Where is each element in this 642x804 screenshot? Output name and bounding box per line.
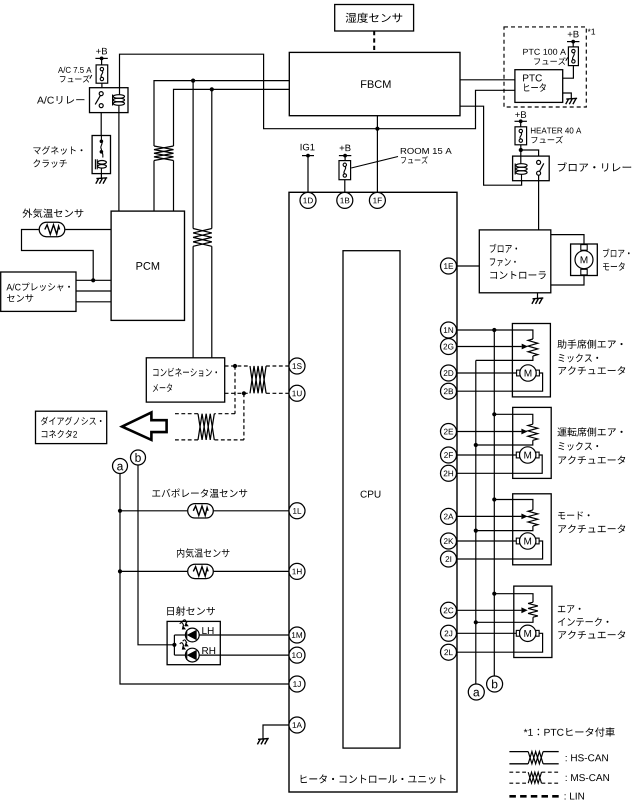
legend MS-CAN twist: [528, 772, 541, 783]
pin 1N: [441, 322, 457, 338]
sunlight sensor (box): [167, 621, 220, 664]
twisted pair MS-CAN (diagnosis branch): [198, 414, 214, 440]
junction dot bus-a actuator4: [474, 620, 478, 624]
pin 1U: [289, 385, 305, 401]
power +B (PTC): [567, 31, 579, 44]
pin 1J: [289, 676, 305, 692]
FBCM (box): [289, 52, 460, 115]
wire 2I to motor3: [457, 541, 543, 559]
node a (right): [468, 684, 484, 700]
wire 1E to controller: [457, 265, 480, 267]
photodiode LH: [180, 620, 200, 642]
label room temp sensor: [177, 548, 230, 557]
thermistor room temp: [188, 564, 214, 578]
ground (PTC heater): [566, 98, 577, 104]
pin 1A: [289, 717, 305, 733]
pin 2L: [441, 644, 457, 660]
wire fuse to relay coil: [520, 150, 522, 156]
junction dot bus-b actuator3: [492, 497, 496, 501]
label LH: [202, 627, 213, 634]
label outside air temp sensor: [22, 209, 83, 218]
fuse PTC 100A: [568, 47, 578, 66]
wire PTC fuse to heater: [563, 66, 574, 79]
junction dot CAN branch L: [191, 79, 195, 83]
junction dot bus-b top: [492, 328, 496, 332]
magnet clutch (box): [92, 136, 110, 174]
wire fuse to relay switch: [521, 150, 539, 156]
wire +B to room fuse: [344, 156, 346, 161]
wire pot3 bottom to bus-a: [476, 526, 533, 531]
combination meter (box): [146, 358, 224, 402]
pin 2G: [441, 339, 457, 355]
wire controller to motor top: [551, 235, 584, 245]
A/C pressure sensor (box): [1, 272, 76, 311]
relay A/C switch: [95, 92, 103, 108]
wire pot4 bottom to bus-a: [476, 617, 533, 622]
power +B (A/C fuse): [95, 48, 107, 60]
wire 2G wiper actuator1: [457, 344, 529, 350]
heater control unit (box): [289, 192, 457, 792]
label FBCM: [361, 80, 390, 88]
wire pot2 bottom to bus-a: [476, 440, 533, 445]
wire 2F to motor2: [457, 454, 517, 456]
wire CAN branch L to meter: [192, 81, 194, 358]
ground (blower controller): [532, 298, 543, 304]
wire motor bottom to controller: [551, 275, 584, 285]
wire LH to 1M: [199, 634, 289, 636]
pin 2A: [441, 508, 457, 524]
wire pressure sensor to PCM 1: [76, 279, 111, 281]
junction dot 1U line: [242, 391, 246, 395]
CPU (box): [343, 251, 400, 748]
wire FBCM to blower relay coil: [460, 106, 522, 185]
pin 2J: [441, 625, 457, 641]
wire b to sun sensor: [138, 465, 174, 645]
label HEATER 40A fuse: [531, 127, 581, 143]
wire HS-CAN H (PCM to FBCM): [174, 89, 290, 211]
actuator3 mode (box): [513, 494, 552, 565]
potentiometer actuator2: [528, 424, 538, 440]
motor actuator4: [516, 625, 539, 641]
junction dot a-room: [118, 569, 122, 573]
junction dot 1S line: [233, 364, 237, 368]
label RH: [202, 647, 215, 654]
wire MS-CAN branch U: [173, 393, 244, 440]
wire relay coil to PCM: [118, 113, 120, 212]
ground (magnet clutch): [96, 178, 107, 184]
motor actuator1: [517, 365, 540, 381]
diagnosis connector (box): [36, 411, 107, 443]
photodiode RH: [180, 640, 200, 662]
wire bus-a (pot commons): [475, 360, 477, 684]
label actuator4: [558, 605, 625, 639]
wire bus-b (pot feeds): [493, 330, 495, 676]
label combination meter: [153, 368, 217, 392]
label PCM: [136, 262, 159, 270]
pin 2E: [441, 424, 457, 440]
twisted pair HS-CAN (meter branch): [193, 229, 212, 247]
ground (unit 1A): [257, 739, 268, 745]
legend LIN line: [509, 795, 560, 798]
label diagnosis connector 2: [41, 417, 102, 438]
blower relay (box): [513, 156, 550, 181]
wire 2C wiper actuator4: [457, 607, 528, 613]
legend label LIN: [565, 793, 584, 800]
wire A/C fuse to relay: [101, 83, 103, 88]
wire MS-CAN meter to 1U: [225, 392, 289, 394]
label actuator1: [557, 339, 625, 374]
power +B (heater fuse): [515, 111, 527, 123]
node a (left): [113, 459, 128, 474]
pin 2C: [441, 602, 457, 618]
legend label HS-CAN: [566, 754, 608, 761]
junction dot bus-b actuator4: [492, 592, 496, 596]
arrow to diagnosis connector: [122, 412, 167, 440]
pin 1S: [289, 358, 305, 374]
motor actuator2: [516, 447, 539, 463]
node b (right): [487, 676, 503, 692]
wire 2B to motor1: [457, 373, 543, 391]
label ROOM 15A fuse: [401, 148, 452, 164]
junction dot bus-b actuator2: [492, 412, 496, 416]
power IG1: [301, 144, 315, 158]
wire IG1 to 1D: [307, 156, 309, 193]
pin 2I: [441, 551, 457, 567]
junction dot heater fuse: [519, 148, 523, 152]
wire +B to heater fuse: [520, 121, 522, 127]
pin 1D: [300, 192, 316, 208]
wire a to 1J: [120, 474, 289, 685]
node b (left): [131, 450, 146, 465]
wire PTC heater to ground: [563, 93, 572, 99]
wire room fuse to 1B: [344, 180, 346, 193]
thermistor evaporator: [188, 504, 214, 518]
legend MS-CAN lines: [509, 772, 558, 783]
wire bus-b branch actuator4: [494, 594, 533, 603]
wire controller to ground: [537, 293, 539, 299]
wire room temp sensor: [120, 570, 289, 572]
wire bus-b branch actuator3: [494, 500, 533, 510]
wire FBCM to pin 1F: [376, 116, 378, 193]
relay A/C (box): [90, 88, 129, 113]
junction dot a-evap: [118, 509, 122, 513]
blower motor: [575, 245, 593, 275]
pin 1O: [289, 647, 305, 663]
fuse HEATER 40A: [515, 127, 527, 145]
wire bus-b branch actuator2: [494, 414, 533, 424]
junction dot 1F feed: [375, 127, 379, 131]
label A/C pressure sensor: [6, 282, 70, 302]
blower motor (box): [571, 244, 598, 276]
humidity sensor (box): [335, 5, 414, 32]
wire MS-CAN meter to 1S: [225, 365, 289, 367]
pin 1M: [289, 627, 305, 643]
thermistor outside air temp: [39, 222, 65, 236]
junction dot pressure line: [91, 278, 95, 282]
label PTC heater: [523, 74, 546, 91]
pin 1H: [289, 563, 305, 579]
power +B (room fuse): [339, 145, 351, 158]
blower relay switch: [537, 160, 544, 175]
pin 2B: [441, 383, 457, 399]
wire outside temp sensor to PCM: [65, 229, 111, 231]
PTC option (dashed box): [504, 27, 586, 107]
wire 1A to ground: [263, 725, 289, 739]
wire 2J to motor4: [457, 632, 517, 634]
junction dot CAN branch H: [210, 87, 214, 91]
junction dot bus-a actuator3: [474, 529, 478, 533]
wire HS-CAN L (PCM to FBCM): [154, 81, 289, 212]
junction dot sun sensor: [172, 643, 176, 647]
wire 1N to pot1: [457, 330, 533, 339]
fuse ROOM 15A: [339, 161, 351, 180]
wire +B to A/C fuse: [101, 58, 103, 65]
motor actuator3: [516, 533, 539, 549]
actuator4 air intake (box): [514, 586, 552, 657]
label evaporator temp sensor: [152, 488, 247, 497]
wire 2D to motor1: [457, 372, 517, 374]
label A/C relay: [37, 96, 84, 104]
wire relay to magnet clutch: [100, 113, 102, 136]
wire 2H to motor2: [457, 455, 543, 473]
wire outside temp sensor loop: [22, 230, 94, 281]
wire pressure sensor to PCM 3: [76, 301, 111, 303]
actuator2 driver air mix (box): [513, 407, 552, 478]
wire sun sensor common: [174, 635, 185, 655]
pin 1F: [369, 192, 385, 208]
legend HS-CAN twist: [528, 752, 543, 764]
blower fan controller (box): [479, 230, 551, 293]
actuator1 passenger air mix (box): [512, 324, 550, 397]
junction dot bus-a actuator2: [474, 443, 478, 447]
wire 2K to motor3: [457, 540, 517, 542]
potentiometer actuator3: [528, 510, 538, 526]
label PTC 100A fuse: [523, 49, 568, 65]
pin 1L: [289, 503, 305, 519]
wire relay coil to +B run: [120, 54, 515, 129]
magnet clutch internals: [95, 136, 106, 174]
wire MS-CAN branch S: [173, 366, 236, 414]
legend HS-CAN lines: [509, 752, 558, 764]
wire 2A wiper actuator3: [457, 514, 528, 520]
twisted pair HS-CAN (PCM-FBCM): [154, 146, 174, 161]
wire clutch to ground: [100, 174, 102, 179]
label blower motor: [603, 248, 630, 270]
pin 2K: [441, 533, 457, 549]
pin 2F: [441, 447, 457, 463]
label sunlight sensor: [167, 606, 215, 615]
pointer line room fuse: [351, 157, 398, 169]
label magnet clutch: [33, 146, 82, 168]
pin 1B: [337, 192, 353, 208]
wire pressure sensor to PCM 2: [76, 290, 111, 292]
pin 2H: [441, 465, 457, 481]
PCM (box): [111, 211, 184, 320]
potentiometer actuator4: [528, 602, 538, 617]
label humidity sensor: [346, 13, 403, 23]
wire heater fuse to relay: [520, 145, 522, 150]
label heater control unit: [301, 774, 446, 783]
wire evap sensor: [120, 510, 289, 512]
legend label MS-CAN: [566, 774, 609, 781]
wire CAN branch H to meter: [211, 89, 213, 357]
wire +B to PTC fuse: [572, 42, 574, 47]
wire LIN humidity to FBCM: [373, 31, 375, 52]
pin 1E: [441, 258, 457, 274]
label actuator2: [557, 427, 625, 464]
potentiometer actuator1: [528, 339, 538, 356]
fuse A/C 7.5A: [96, 65, 108, 83]
relay A/C coil: [113, 88, 125, 113]
label blower fan controller: [490, 244, 546, 279]
PTC heater (box): [515, 70, 563, 103]
wire 2L to motor4: [457, 633, 543, 652]
note PTC option: [524, 727, 615, 736]
label *1: [588, 29, 595, 35]
label blower relay: [558, 162, 631, 171]
label A/C 7.5 A fuse: [58, 67, 92, 83]
wire 2E wiper actuator2: [457, 429, 528, 435]
twisted pair MS-CAN (meter-unit): [250, 366, 266, 393]
pin 2D: [441, 365, 457, 381]
label CPU: [361, 491, 381, 498]
wire blower relay to controller: [538, 175, 540, 230]
wire RH to 1O: [199, 654, 289, 656]
wire FBCM to PTC heater 1: [460, 79, 515, 81]
label actuator3: [558, 511, 625, 533]
blower relay coil: [515, 156, 527, 181]
wire pot1 bottom to bus-a: [476, 356, 533, 360]
